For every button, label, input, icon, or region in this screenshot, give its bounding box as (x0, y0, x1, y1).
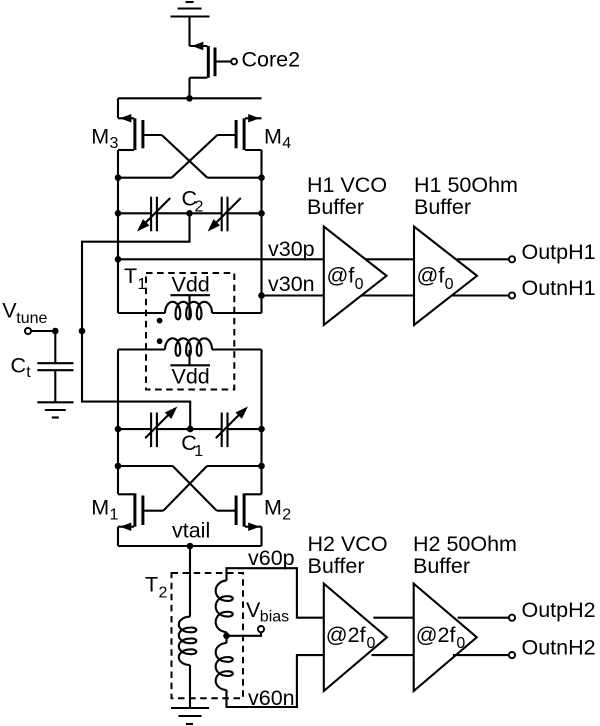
node M1 drain (115, 463, 122, 470)
wire T2 secondary mid top (225, 632, 227, 636)
node C1 center (187, 426, 194, 433)
ground T2 (171, 708, 209, 724)
label H2 VCO Buffer (308, 532, 388, 578)
svg-text:1: 1 (138, 276, 147, 293)
svg-text:1: 1 (194, 443, 203, 460)
wire top rail (118, 97, 262, 99)
wire Vtune to C1 center (82, 331, 190, 429)
node M2 drain (258, 463, 265, 470)
node C2 left (115, 210, 122, 217)
svg-text:v60p: v60p (248, 546, 295, 570)
gate stub M3 (144, 134, 162, 136)
wire v30n (262, 294, 324, 296)
terminal OutnH1 (509, 292, 515, 298)
wire left rail C2 to coil (117, 213, 119, 313)
label v60n (248, 686, 295, 710)
transistor M2 (NMOS) (236, 466, 261, 546)
inductor T1 secondary (118, 338, 262, 356)
svg-text:T: T (124, 264, 137, 288)
label H1 50Ohm Buffer (414, 173, 518, 219)
ground Ct (37, 402, 73, 417)
gate stub M2 (217, 510, 236, 512)
inductor T2 secondary top (216, 581, 233, 632)
varactor C1 left (145, 407, 177, 448)
svg-text:Vdd: Vdd (172, 365, 210, 389)
node Vtune 1 (52, 328, 59, 335)
wire cross-couple M3 gate to M4 drain (162, 135, 208, 178)
svg-text:1: 1 (110, 506, 119, 523)
label Vbias (246, 598, 289, 626)
wire right rail to C2 (260, 178, 262, 214)
gate stub M4 (217, 134, 235, 136)
capacitor Ct (37, 331, 73, 402)
svg-text:v30p: v30p (268, 237, 315, 261)
svg-text:OutnH2: OutnH2 (522, 636, 596, 660)
label C1 (181, 431, 203, 460)
wire H1 interstage bottom (362, 294, 414, 296)
op-amp buffer H1 VCO (324, 227, 387, 326)
transistor M4 (PMOS) (236, 114, 261, 178)
wire M4 drain rail (207, 177, 261, 179)
node T2 center tap (223, 633, 230, 640)
wire H2 interstage top (373, 617, 413, 619)
label T2 (145, 573, 168, 602)
svg-text:@f: @f (327, 263, 355, 287)
wire v60p (227, 568, 324, 618)
wire cross-couple M2 gate to M1 drain (173, 466, 217, 511)
svg-text:M: M (264, 496, 282, 520)
label @2f0 buffer1 (326, 623, 376, 652)
label v30n (268, 272, 315, 296)
label M4 (264, 124, 291, 152)
power rail symbol (flipped ground / VDD) (171, 2, 210, 17)
svg-text:t: t (26, 364, 31, 381)
svg-text:M: M (264, 124, 282, 148)
label v60p (248, 546, 295, 570)
wire vtail to T2 (189, 546, 191, 617)
transistor M1 (NMOS) (118, 466, 143, 546)
svg-text:C: C (11, 354, 27, 378)
wire OutpH1 (457, 258, 509, 260)
wire Vbias stub (227, 632, 262, 636)
gate stub M1 (144, 510, 163, 512)
svg-text:Vdd: Vdd (172, 273, 210, 297)
svg-text:H1 50Ohm: H1 50Ohm (414, 173, 518, 197)
svg-text:Core2: Core2 (242, 48, 301, 72)
wire C2 rail mid (157, 212, 222, 214)
wire OutnH2 (453, 654, 509, 656)
label M1 (91, 496, 118, 524)
inductor T1 primary (118, 302, 262, 320)
wire OutpH2 (458, 617, 509, 619)
wire right rail C2 to v30n (260, 213, 262, 313)
svg-text:0: 0 (367, 635, 376, 652)
svg-text:Buffer: Buffer (307, 195, 364, 219)
wire C1 rail right (228, 428, 262, 430)
svg-text:@2f: @2f (326, 623, 366, 647)
label v30p (268, 237, 315, 261)
wire C1 rail mid (157, 428, 222, 430)
wire Vdd tap top (188, 295, 190, 318)
node v30p (115, 256, 122, 263)
label @f0 buffer1 (327, 263, 364, 293)
label Vtune (2, 298, 47, 327)
svg-text:0: 0 (355, 276, 364, 293)
label @2f0 buffer2 (416, 623, 466, 652)
wire v30p (118, 258, 324, 260)
wire left rail M3 source (117, 98, 119, 118)
svg-text:M: M (91, 496, 109, 520)
label Vdd bottom (170, 365, 210, 389)
transistor Core2 (PMOS) (190, 42, 216, 99)
wire right rail T1 to C1 (260, 350, 262, 467)
svg-text:2: 2 (282, 506, 291, 523)
label Ct (11, 354, 32, 382)
svg-text:V: V (2, 298, 17, 322)
svg-text:H2 50Ohm: H2 50Ohm (413, 532, 517, 556)
wire vtail rail (118, 545, 262, 547)
svg-text:H2 VCO: H2 VCO (308, 532, 388, 556)
svg-text:0: 0 (456, 635, 465, 652)
label H1 VCO Buffer (307, 173, 387, 219)
wire M2 drain rail (207, 465, 262, 467)
svg-text:@f: @f (417, 263, 445, 287)
wire cross-couple M4 gate to M3 drain (172, 135, 218, 178)
node top rail (186, 95, 193, 102)
wire C2 center tap to Vtune (82, 213, 190, 331)
node C2 right (258, 210, 265, 217)
inductor T2 primary (179, 617, 197, 665)
wire left rail T1 to C1 (117, 350, 119, 467)
wire cross-couple M1 gate to M2 drain (163, 466, 207, 511)
wire v60n (227, 655, 324, 707)
op-amp buffer H2 VCO (324, 584, 387, 691)
label OutnH1 (522, 276, 596, 300)
wire T2 primary to ground (189, 665, 191, 708)
wire Vdd tap bottom (188, 350, 190, 365)
wire left rail to C2 (117, 178, 119, 214)
svg-text:OutpH2: OutpH2 (522, 598, 596, 622)
wire VDD to Core2 source (188, 17, 190, 47)
terminal Core2 (231, 59, 237, 65)
svg-text:vtail: vtail (172, 519, 210, 543)
svg-text:T: T (145, 573, 158, 597)
varactor C2 right (208, 197, 241, 232)
label C2 (182, 186, 204, 215)
terminal OutpH2 (509, 615, 515, 621)
wire C1 rail left (118, 428, 151, 430)
terminal Vbias (258, 626, 264, 632)
label OutpH2 (522, 598, 596, 622)
terminal OutpH1 (509, 256, 515, 262)
node Vtune 2 (79, 328, 86, 335)
node M3 drain (115, 174, 122, 181)
wire H1 interstage top (366, 258, 414, 260)
svg-text:v30n: v30n (268, 272, 315, 296)
transformer T2 box (172, 573, 244, 698)
svg-text:Buffer: Buffer (308, 554, 365, 578)
svg-text:M: M (91, 124, 109, 148)
transformer T1 box (146, 273, 234, 390)
wire M3 drain rail (118, 177, 172, 179)
op-amp buffer H1 50Ohm (414, 227, 477, 326)
node v30n (258, 292, 265, 299)
svg-text:2: 2 (195, 198, 204, 215)
svg-text:0: 0 (445, 276, 454, 293)
wire C2 rail right (228, 212, 262, 214)
label T1 (124, 264, 147, 293)
label Vdd top (170, 273, 210, 297)
varactor C1 right (216, 407, 248, 448)
svg-text:bias: bias (260, 609, 289, 626)
transistor M3 (PMOS) (118, 114, 143, 178)
svg-text:tune: tune (16, 310, 47, 327)
svg-text:V: V (246, 598, 261, 622)
wire C2 rail left (118, 212, 151, 214)
node C1 right (258, 426, 265, 433)
label OutnH2 (522, 636, 596, 660)
label M3 (91, 124, 118, 152)
label Core2 (242, 48, 301, 72)
node C1 left (115, 426, 122, 433)
svg-text:2: 2 (159, 585, 168, 602)
node C2 center (186, 210, 193, 217)
label @f0 buffer2 (417, 263, 454, 293)
svg-text:4: 4 (282, 135, 291, 152)
polarity dot T1 secondary (157, 338, 163, 344)
varactor C2 left (137, 197, 170, 232)
svg-text:v60n: v60n (248, 686, 295, 710)
label OutpH1 (522, 240, 596, 264)
svg-text:3: 3 (110, 135, 119, 152)
node M4 drain (258, 174, 265, 181)
svg-text:OutpH1: OutpH1 (522, 240, 596, 264)
svg-text:OutnH1: OutnH1 (522, 276, 596, 300)
label vtail (172, 519, 210, 543)
inductor T2 secondary bottom (216, 636, 233, 690)
svg-text:Buffer: Buffer (414, 195, 471, 219)
wire M1 drain rail (118, 465, 173, 467)
gate wire Core2 (216, 60, 231, 62)
svg-text:H1 VCO: H1 VCO (307, 173, 387, 197)
label M2 (264, 496, 291, 524)
op-amp buffer H2 50Ohm (414, 584, 477, 691)
terminal Vtune (25, 328, 31, 334)
terminal OutnH2 (509, 652, 515, 658)
svg-text:Buffer: Buffer (413, 554, 470, 578)
svg-text:@2f: @2f (416, 623, 456, 647)
label H2 50Ohm Buffer (413, 532, 517, 578)
wire H2 interstage bottom (372, 654, 414, 656)
wire OutnH1 (453, 294, 509, 296)
node vtail (187, 543, 194, 550)
wire Vtune terminal (31, 330, 55, 332)
polarity dot T1 primary (157, 318, 163, 324)
